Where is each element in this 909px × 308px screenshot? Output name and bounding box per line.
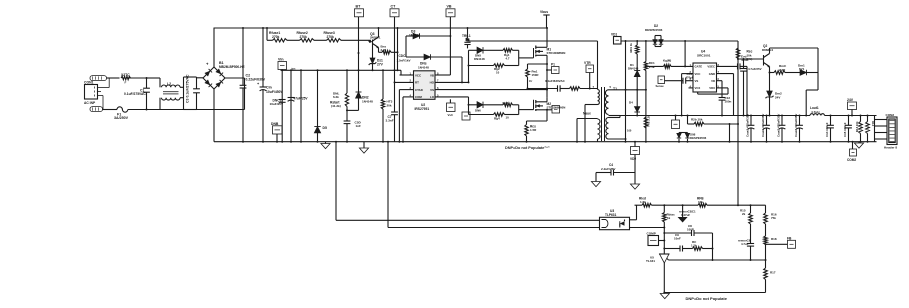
wire <box>397 28 399 70</box>
capacitor C2 <box>242 28 244 85</box>
svg-text:VCC: VCC <box>415 73 422 77</box>
svg-text:FB: FB <box>787 236 792 240</box>
capacitor Csc 4.7uF/25V <box>743 59 745 69</box>
svg-text:2.2uF/25V: 2.2uF/25V <box>601 167 616 171</box>
wire bridge bottom to gnd bus <box>213 89 215 142</box>
capacitor CBC1 DNP + ground <box>682 205 684 217</box>
resistor Rbias 1k <box>663 205 665 212</box>
svg-text:R13 10k: R13 10k <box>855 121 859 132</box>
svg-text:DN4148: DN4148 <box>474 57 485 61</box>
svg-text:270k: 270k <box>300 35 308 39</box>
svg-text:Cout2 470uF/35V: Cout2 470uF/35V <box>761 114 765 137</box>
svg-text:4.7: 4.7 <box>506 57 510 61</box>
capacitor C1 <box>146 78 148 88</box>
svg-text:1k: 1k <box>667 216 671 220</box>
MOSFET M2 STD10NM60N <box>533 100 535 110</box>
svg-text:1N4906: 1N4906 <box>409 33 420 37</box>
wire ref line <box>669 259 766 261</box>
capacitor Cout3 470uF/35V <box>781 116 783 126</box>
resistor R2b 10k <box>687 116 689 125</box>
svg-text:AC INP: AC INP <box>84 101 96 105</box>
svg-text:DN6: DN6 <box>475 109 481 113</box>
wire gnd line + ground <box>664 292 765 294</box>
wire opto emitter return <box>387 142 389 228</box>
transistor Q3 2N5551 <box>372 40 374 46</box>
svg-text:10uF/25V: 10uF/25V <box>270 102 285 106</box>
svg-text:VTR: VTR <box>584 61 591 65</box>
resistor RFB 10k <box>698 203 707 207</box>
resistor RC1 <box>645 41 647 62</box>
resistor R15 divider <box>750 205 752 213</box>
svg-text:R2b 10k: R2b 10k <box>691 118 703 122</box>
ground <box>363 142 365 148</box>
svg-text:DESPE0506: DESPE0506 <box>690 136 707 140</box>
svg-text:HO: HO <box>430 81 435 85</box>
resistor Rns 2.2k <box>378 48 380 53</box>
resistor R13 <box>860 116 862 122</box>
net label VB <box>446 9 455 17</box>
svg-text:27V: 27V <box>377 62 384 66</box>
svg-text:BT: BT <box>356 5 362 9</box>
wire secondary top <box>609 89 646 91</box>
wire primary resonant link <box>468 40 598 42</box>
wire VB rail <box>449 17 451 75</box>
resistor Rr <box>570 87 581 91</box>
op-amp U2 IRS27951 half-bridge controller <box>414 71 436 100</box>
svg-text:VD1: VD1 <box>611 33 617 37</box>
svg-text:VCC: VCC <box>695 72 701 76</box>
net label COM2 <box>852 142 854 149</box>
net label COMP <box>648 236 659 246</box>
svg-text:CTAD: CTAD <box>415 88 423 92</box>
wire U4 pin2 <box>682 73 693 75</box>
svg-text:Kg(M): Kg(M) <box>663 58 671 62</box>
net label BT <box>355 9 364 17</box>
capacitor C15 100nF <box>848 116 850 126</box>
capacitor C5D 1nF <box>344 120 351 122</box>
svg-text:4.7uF: 4.7uF <box>741 242 749 246</box>
svg-text:VDX: VDX <box>709 86 715 90</box>
svg-text:VD: VD <box>711 79 715 83</box>
wire <box>630 227 665 229</box>
resistor Rfuse3 270k <box>327 39 342 42</box>
resistor Rg(M) gate line to U4 <box>646 65 664 67</box>
svg-text:1.5R: 1.5R <box>530 128 537 132</box>
svg-text:270k: 270k <box>272 35 280 39</box>
svg-text:RD1 1k: RD1 1k <box>629 43 633 53</box>
capacitor Cr 0.1uF/630VAC <box>528 88 558 90</box>
svg-text:T1: T1 <box>613 87 617 91</box>
connector CON2 <box>874 116 876 142</box>
resistor Rcs source sense <box>527 120 548 122</box>
svg-text:100n: 100n <box>725 100 732 104</box>
bridge rectifier B1 <box>203 67 225 89</box>
svg-text:GATE: GATE <box>695 65 703 69</box>
svg-text:COMP: COMP <box>647 232 656 236</box>
gate network M1: diode DN5 + resistors <box>469 49 478 51</box>
svg-text:F: F <box>125 80 127 84</box>
net label P2 <box>552 106 560 114</box>
svg-text:0.1uF/630VAC: 0.1uF/630VAC <box>545 79 566 83</box>
svg-text:(41.2k): (41.2k) <box>331 104 341 108</box>
svg-text:Vbus: Vbus <box>540 10 548 14</box>
net label VD2 + aux cap C4 <box>634 142 636 147</box>
resistor TR 0.1 <box>467 28 469 38</box>
net label VD1 <box>614 37 622 45</box>
diode D3 1N4148 <box>406 35 413 37</box>
ground <box>595 173 597 182</box>
gate network M2: diode DN6 + resistors <box>469 104 478 106</box>
thermistor X2TC <box>121 76 131 79</box>
svg-text:Sense: Sense <box>656 84 665 88</box>
wire <box>197 77 204 79</box>
wire <box>630 219 637 221</box>
svg-text:Naux: Naux <box>583 111 591 115</box>
connector plug N (neutral terminal) <box>90 107 103 112</box>
svg-text:1.5nF/1kV: 1.5nF/1kV <box>397 58 411 62</box>
svg-text:0.1uF/275VAC: 0.1uF/275VAC <box>124 92 146 96</box>
wire VS to half-bridge mid <box>435 89 547 91</box>
svg-text:R18: R18 <box>771 237 777 241</box>
capacitor Cin bulk <box>262 28 264 87</box>
wire <box>738 58 764 60</box>
ground <box>325 142 327 144</box>
svg-text:Rg4: Rg4 <box>494 116 500 120</box>
svg-text:0.47uF: 0.47uF <box>681 213 690 217</box>
capacitor C9 + resistor RC comp branch <box>664 248 680 250</box>
svg-text:Rg3: Rg3 <box>503 101 509 105</box>
svg-text:C3 0.1uF/275VAC: C3 0.1uF/275VAC <box>185 74 189 103</box>
svg-text:RT: RT <box>415 81 419 85</box>
svg-text:VS: VS <box>430 88 434 92</box>
capacitor C6 47uF/25V <box>290 70 292 141</box>
svg-text:STD10NM60N: STD10NM60N <box>547 51 566 55</box>
svg-text:Vin: Vin <box>278 58 284 62</box>
svg-text:DNP=Do not Populate: DNP=Do not Populate <box>686 296 728 301</box>
wire <box>717 87 729 89</box>
connector plug L (line terminal) <box>90 76 107 81</box>
svg-text:3A/250V: 3A/250V <box>114 116 129 120</box>
wire CT pin to C7 node <box>399 89 413 91</box>
diode D5 <box>317 70 319 126</box>
capacitor C14 100nF <box>830 116 832 126</box>
resistor Rled 1.6k <box>642 203 652 207</box>
svg-text:100: 100 <box>627 129 632 133</box>
wire <box>461 57 463 82</box>
wire <box>717 73 734 75</box>
capacitor DNC1 10uF/25V <box>281 70 283 141</box>
capacitor C7 3.3nF <box>391 111 398 113</box>
resistor Rstart <box>346 70 348 93</box>
net label Vcc <box>278 62 287 70</box>
svg-text:R17: R17 <box>770 271 776 275</box>
svg-text:TL431: TL431 <box>646 259 655 263</box>
wire Vcc rail <box>281 69 402 71</box>
svg-text:10: 10 <box>506 115 510 119</box>
diode DN2 1N4148 <box>356 92 362 98</box>
diode DNs 1N4148 <box>406 56 424 58</box>
capacitor Cvd 4.7u <box>717 65 738 67</box>
svg-text:DESPE0506: DESPE0506 <box>645 28 663 32</box>
wire primary GND bus <box>214 141 877 143</box>
resistor RD1 + diode D1 chain <box>636 41 638 45</box>
svg-text:TR0.1: TR0.1 <box>462 34 471 38</box>
power flag Vbus <box>546 15 548 28</box>
svg-text:Vs0: Vs0 <box>448 113 454 117</box>
ground <box>634 173 636 185</box>
wire output rail <box>620 115 810 117</box>
ground <box>858 142 860 143</box>
wire <box>266 28 268 40</box>
svg-text:24V: 24V <box>775 95 780 99</box>
capacitor C8 100p comp branch <box>664 232 691 234</box>
resistor Rfuse1 270k <box>273 39 288 42</box>
svg-text:5V1: 5V1 <box>799 67 805 71</box>
capacitor C3 <box>193 88 200 90</box>
wire <box>128 109 184 111</box>
fuse F1 <box>117 107 128 112</box>
resistor R16 divider <box>765 205 767 213</box>
svg-text:1N4148: 1N4148 <box>418 65 429 69</box>
wire <box>180 86 184 88</box>
svg-text:D4: D4 <box>629 100 633 104</box>
svg-text:DNB: DNB <box>271 122 279 126</box>
net label 24V <box>851 110 853 116</box>
svg-text:Cout1 470uF/35V: Cout1 470uF/35V <box>746 114 750 137</box>
svg-text:VB: VB <box>430 73 434 77</box>
connector CON1 <box>85 85 98 100</box>
wire <box>107 77 120 79</box>
resistor Rsc 10k <box>736 48 739 59</box>
dual diode S08 DESPE0506 <box>679 132 688 134</box>
svg-text:TLP631: TLP631 <box>605 213 617 217</box>
svg-text:VB: VB <box>447 5 452 9</box>
svg-text:SRC1001: SRC1001 <box>697 53 711 57</box>
svg-text:MB2M-BP500-HE: MB2M-BP500-HE <box>219 65 245 69</box>
wire <box>147 77 161 79</box>
svg-text:Cout3 470uF/35V: Cout3 470uF/35V <box>777 114 781 137</box>
resistor HT3 20k <box>382 70 384 99</box>
wire opto collector return <box>335 142 337 221</box>
diode D4 <box>636 90 638 107</box>
svg-text:10uF/450V: 10uF/450V <box>266 90 284 94</box>
zener Dm2 24V <box>769 73 771 92</box>
capacitor <box>464 41 470 43</box>
svg-text:DNP=Do not Populate”*”: DNP=Do not Populate”*” <box>505 146 550 150</box>
wire collector line <box>770 47 819 49</box>
wire <box>712 233 714 260</box>
net label COM1 <box>675 116 677 121</box>
zener Dz1 27V <box>372 45 374 58</box>
wire bridge top to HV bus <box>213 28 215 67</box>
wire CT rail <box>394 17 396 112</box>
wire HO <box>435 81 469 83</box>
svg-text:D5: D5 <box>323 126 327 130</box>
net label Sense + cap CD1 on pin3 <box>658 76 665 84</box>
net label DNB <box>276 134 278 142</box>
svg-text:3.3nF: 3.3nF <box>386 119 394 123</box>
MOSFET M1 STD10NM60N <box>533 48 535 58</box>
svg-text:1.2k: 1.2k <box>691 244 697 248</box>
wire <box>625 41 627 142</box>
svg-text:VCX: VCX <box>695 86 701 90</box>
svg-text:COM: COM <box>415 95 422 99</box>
common mode choke L2 <box>159 78 161 87</box>
svg-text:24V: 24V <box>847 98 854 102</box>
wire <box>729 124 731 142</box>
inductor Lout1 4.7uH <box>810 114 825 116</box>
svg-text:CON2: CON2 <box>886 113 895 117</box>
resistor R14 <box>867 116 869 122</box>
capacitor CDC 1.5nF/1kV <box>405 36 407 57</box>
net label P1 <box>552 67 560 74</box>
svg-text:GND: GND <box>709 72 715 76</box>
capacitor Cout2 470uF/35V <box>766 116 768 126</box>
wire <box>128 77 160 79</box>
svg-text:270k: 270k <box>327 35 335 39</box>
svg-text:20k: 20k <box>387 103 392 107</box>
dual diode D2 DESPE0506 <box>621 40 738 42</box>
net label CT <box>390 9 399 17</box>
svg-text:100P: 100P <box>687 228 694 232</box>
wire secondary bottom <box>609 138 626 140</box>
wire HV+ bus <box>214 27 548 29</box>
resistor Rfuse2 270k <box>300 39 315 42</box>
svg-text:4.7uF/25V: 4.7uF/25V <box>748 67 762 71</box>
svg-text:6.2k: 6.2k <box>333 95 339 99</box>
wire <box>225 77 245 79</box>
op-amp U4 SRC1001 sync rect controller <box>693 63 717 92</box>
svg-text:Header 8: Header 8 <box>884 145 897 149</box>
svg-text:10: 10 <box>496 70 500 74</box>
wire <box>817 48 819 90</box>
resistor RmC 2R2 <box>770 72 775 74</box>
resistor Rvs 150R <box>528 63 548 65</box>
svg-text:VS: VS <box>695 79 699 83</box>
wire BT rail <box>358 17 360 92</box>
svg-text:VSEC: VSEC <box>707 65 715 69</box>
net label box2 <box>462 112 470 120</box>
wire COM to gnd <box>403 96 414 98</box>
svg-text:CT: CT <box>391 5 397 9</box>
svg-text:2N5551: 2N5551 <box>370 35 381 39</box>
wire <box>300 70 302 141</box>
wire U4 pin1 <box>684 41 686 66</box>
svg-text:1.6k: 1.6k <box>640 200 646 204</box>
svg-text:2.2R: 2.2R <box>779 68 786 72</box>
svg-text:2.2k: 2.2k <box>381 48 387 52</box>
svg-text:1N4148: 1N4148 <box>362 99 373 103</box>
net label Vs0 <box>447 103 456 112</box>
wire RT pin stub <box>395 81 414 83</box>
svg-text:X2TC: X2TC <box>121 73 130 77</box>
resistor R18 <box>764 236 768 244</box>
net label FB <box>766 243 788 245</box>
wire feedback top line <box>635 204 643 206</box>
svg-text:CON1: CON1 <box>84 81 94 85</box>
wire center tap to output rail <box>609 115 621 117</box>
svg-text:75k: 75k <box>771 216 776 220</box>
shunt regulator U5 TL431 <box>659 253 670 255</box>
svg-text:TR2 2.2k: TR2 2.2k <box>647 115 651 127</box>
svg-text:C15 100nF: C15 100nF <box>843 122 847 137</box>
wire <box>717 80 723 82</box>
resistor TR2 <box>644 117 647 128</box>
svg-text:C14 100nF: C14 100nF <box>825 122 829 137</box>
node - X cap rails <box>183 77 185 110</box>
capacitor Cout4 470uF/35V <box>799 116 801 126</box>
wire <box>103 109 118 111</box>
net label VTR <box>586 65 594 73</box>
svg-text:D882H4: D882H4 <box>762 48 773 52</box>
svg-text:1nF: 1nF <box>356 124 362 128</box>
wire <box>580 88 598 90</box>
capacitor C12 100n <box>721 81 723 98</box>
svg-text:4.7uH: 4.7uH <box>811 110 820 114</box>
svg-text:P1: P1 <box>551 62 555 66</box>
svg-text:10nF: 10nF <box>674 237 681 241</box>
optocoupler U3 TLP631 <box>600 217 630 229</box>
resistor R17 lower <box>765 260 767 268</box>
svg-text:10k: 10k <box>698 200 703 204</box>
svg-text:L2: L2 <box>167 82 171 86</box>
capacitor C16 DNP <box>747 243 754 245</box>
svg-text:IRS27951: IRS27951 <box>415 107 430 111</box>
wire U4 pin4 stub <box>689 87 694 89</box>
svg-text:Cout4 470uF/35V: Cout4 470uF/35V <box>794 114 798 137</box>
wire Vsec feedback drop <box>737 41 739 205</box>
svg-text:150R: 150R <box>532 73 540 77</box>
svg-text:COM2: COM2 <box>847 158 856 162</box>
capacitor Cout1 470uF/35V <box>750 116 752 126</box>
diode Dm1 5V1 <box>800 70 807 76</box>
transistor Q2 D882H4 <box>763 55 765 66</box>
svg-text:2k: 2k <box>742 212 746 216</box>
wire LO <box>435 96 469 98</box>
